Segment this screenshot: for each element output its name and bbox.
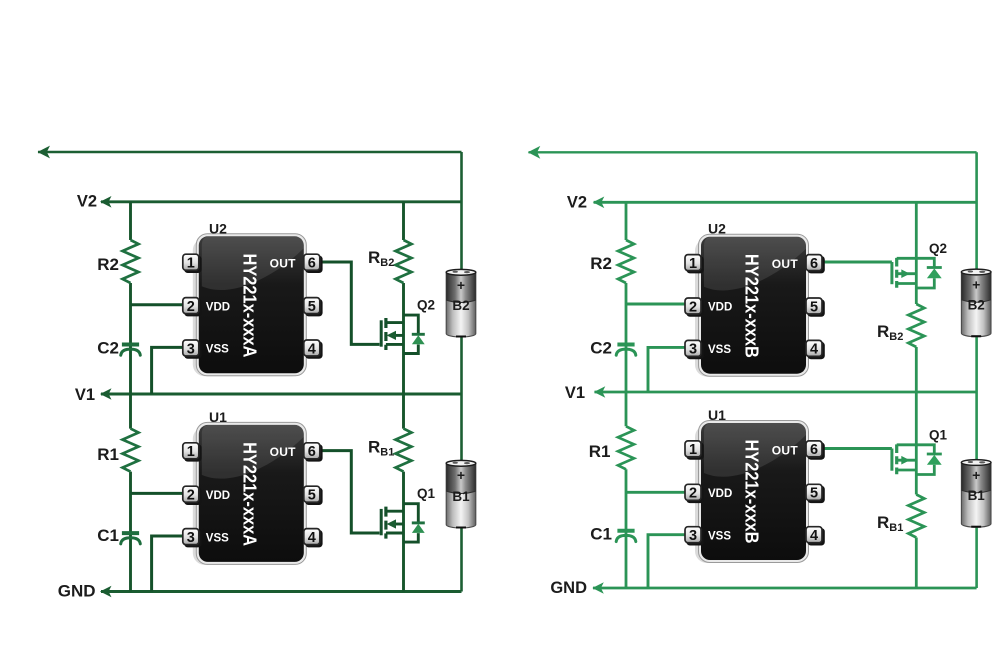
wire VDD tap upper right <box>626 303 690 306</box>
svg-text:GND: GND <box>550 579 587 597</box>
svg-text:+: + <box>457 467 465 483</box>
op chip U2 right <box>685 234 825 377</box>
resistor R2 right <box>618 240 634 283</box>
wire VDD tap upper left <box>131 303 187 306</box>
capacitor C2 <box>121 345 141 356</box>
svg-text:+: + <box>972 277 980 293</box>
Q2 right body arrow <box>901 269 910 278</box>
svg-text:C1: C1 <box>97 526 119 545</box>
wire RB2 column left <box>402 202 405 240</box>
svg-text:V1: V1 <box>565 384 585 402</box>
svg-text:V1: V1 <box>75 386 95 404</box>
svg-text:B1: B1 <box>452 489 470 504</box>
svg-text:RB1: RB1 <box>877 513 903 534</box>
svg-text:U1: U1 <box>209 409 227 425</box>
svg-text:HY221x-xxxB: HY221x-xxxB <box>742 440 763 544</box>
wire V1 rail right <box>595 391 977 394</box>
wire V2 rail right <box>594 201 977 204</box>
arrowhead V1 left <box>100 388 112 400</box>
wire VSS tap upper left <box>152 347 186 394</box>
Q1 right diode cathode bar <box>927 453 942 456</box>
Q1 right body tap <box>897 459 917 462</box>
resistor RB1 <box>396 429 412 472</box>
svg-text:Q1: Q1 <box>929 428 948 443</box>
Q2 right diode cathode bar <box>927 266 942 269</box>
Q2 left body-diode branch <box>404 315 419 353</box>
Q1 left diode cathode bar <box>412 521 425 524</box>
svg-text:U2: U2 <box>708 221 726 237</box>
wire top rail right <box>529 151 977 153</box>
svg-text:HY221x-xxxB: HY221x-xxxB <box>742 254 763 358</box>
wire VDD tap lower left <box>131 492 187 495</box>
svg-text:HY221x-xxxA: HY221x-xxxA <box>240 254 261 358</box>
battery B2 right <box>961 269 991 337</box>
svg-text:R2: R2 <box>590 254 612 273</box>
arrowhead GND right <box>592 582 604 594</box>
resistor R1 right <box>618 426 634 469</box>
wire V1 rail left <box>101 393 462 396</box>
svg-text:R1: R1 <box>97 445 119 464</box>
arrowhead top rail left <box>38 146 51 159</box>
arrowhead top rail right <box>528 146 541 159</box>
arrowhead V1 right <box>594 386 606 398</box>
Q2 right drain to V2 <box>915 202 918 304</box>
svg-text:+: + <box>457 277 465 293</box>
transistor Q2 right: gate bar <box>890 262 893 284</box>
svg-text:RB2: RB2 <box>368 248 394 269</box>
op chip U1 right <box>685 421 825 564</box>
op chip U1 left <box>183 422 323 565</box>
Q1 left channel dashes <box>384 507 387 539</box>
arrowhead V2 right <box>593 197 605 209</box>
Q1 right source tap <box>897 469 917 472</box>
svg-text:B2: B2 <box>452 298 469 313</box>
svg-text:R2: R2 <box>97 255 119 274</box>
wire VSS tap lower left <box>152 536 186 592</box>
wire GND rail right <box>593 587 977 590</box>
Q1 right channel dashes <box>895 444 898 474</box>
Q2 left drain tap <box>386 321 404 324</box>
svg-text:V2: V2 <box>567 194 587 212</box>
svg-text:C2: C2 <box>97 339 119 358</box>
svg-text:RB1: RB1 <box>368 438 394 459</box>
wire VDD tap lower right <box>626 491 690 494</box>
resistor R1 <box>123 429 139 472</box>
wire RB2 right to V1 <box>915 347 918 392</box>
resistor RB2 right <box>908 304 924 347</box>
transistor Q2 left: gate bar <box>381 318 403 350</box>
battery B1 left <box>446 460 476 528</box>
resistor RB1 right <box>908 495 924 538</box>
Q2 right body tap <box>897 272 917 275</box>
resistor RB2 <box>396 240 412 283</box>
svg-text:HY221x-xxxA: HY221x-xxxA <box>240 442 261 546</box>
svg-text:B2: B2 <box>968 298 985 313</box>
svg-text:V2: V2 <box>77 193 97 211</box>
wire OUT pin6 to Q1 gate lower left <box>315 451 380 533</box>
Q2 left body arrow <box>387 331 396 340</box>
Q2 left diode cathode bar <box>412 333 425 336</box>
wire battery column left <box>460 152 463 592</box>
battery B1 right <box>961 460 991 528</box>
Q2 right source tap <box>897 282 917 285</box>
Q1 left drain tap <box>386 510 404 513</box>
svg-text:RB2: RB2 <box>877 322 903 343</box>
resistor R2 <box>123 240 139 283</box>
wire battery column right <box>975 152 978 588</box>
wire VSS tap lower right <box>648 535 690 588</box>
Q1 left body tap <box>394 523 404 526</box>
Q2 right drain tap <box>897 257 917 260</box>
Q2 right diode triangle <box>927 268 942 278</box>
svg-text:Q2: Q2 <box>929 241 947 256</box>
svg-text:U1: U1 <box>708 407 726 423</box>
Q2 right body-diode branch <box>916 258 934 288</box>
arrowhead GND left <box>100 586 112 598</box>
svg-text:GND: GND <box>58 582 96 601</box>
Q1 left body-diode branch <box>404 504 419 542</box>
capacitor C2 right <box>616 345 636 356</box>
Q1 right body-diode branch <box>916 445 934 475</box>
wire OUT pin6 to Q1 gate right <box>817 447 892 450</box>
Q2 left source tap <box>386 343 404 346</box>
svg-text:+: + <box>972 467 980 483</box>
Q1 right diode triangle <box>927 455 942 465</box>
Q1 right body arrow <box>901 456 910 465</box>
battery B2 left <box>446 269 476 337</box>
svg-text:C2: C2 <box>590 339 612 358</box>
wire GND rail left <box>101 590 462 593</box>
wire R2/C2 column segments left <box>129 202 132 240</box>
Q1 left diode triangle <box>412 524 425 533</box>
wire VSS tap upper right <box>648 347 690 392</box>
arrowhead V2 left <box>100 196 112 208</box>
Q2 left channel dashes <box>384 318 387 350</box>
Q2 left body tap <box>394 334 404 337</box>
wire OUT pin6 to Q2 gate upper left <box>315 262 380 344</box>
transistor Q1 left: gate bar <box>381 507 403 539</box>
Q1 right drain to V1 <box>915 392 918 495</box>
wire top rail left <box>38 151 462 153</box>
svg-text:Q1: Q1 <box>417 486 436 501</box>
capacitor C1 <box>121 533 141 544</box>
Q2 left diode triangle <box>412 335 425 344</box>
svg-text:U2: U2 <box>209 221 227 237</box>
capacitor C1 right <box>616 531 636 542</box>
transistor Q1 right: gate bar <box>890 449 893 471</box>
svg-text:B1: B1 <box>968 488 986 503</box>
svg-text:C1: C1 <box>590 525 612 544</box>
wire V2 rail left <box>101 200 462 203</box>
svg-text:Q2: Q2 <box>417 298 435 313</box>
Q1 left body arrow <box>387 519 396 528</box>
Q2 right channel dashes <box>895 258 898 288</box>
Q1 left source tap <box>386 532 404 535</box>
op chip U2 left <box>183 234 323 376</box>
wire R2/C2 column segments right <box>625 202 628 240</box>
svg-text:R1: R1 <box>589 442 611 461</box>
wire OUT pin6 to Q2 gate right <box>817 261 892 264</box>
wire RB1 right to GND <box>915 538 918 589</box>
Q1 right drain tap <box>897 443 917 446</box>
